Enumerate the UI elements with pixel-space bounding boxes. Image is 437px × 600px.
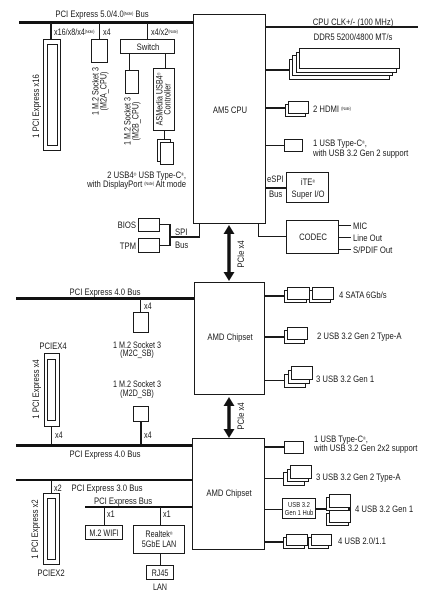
- DDR5 DIMM rect 3: [292, 55, 393, 76]
- label PCI Express 4.0 Bus (upper): [70, 287, 141, 297]
- bus PCI Express 4.0 (upper): [16, 297, 194, 300]
- label x4 (M2A): [103, 28, 111, 36]
- wire Realtek to RJ45: [160, 554, 161, 566]
- label Line Out: [353, 233, 382, 243]
- USB Type-C port rect: [284, 139, 303, 152]
- label 1 PCI Express x4: [31, 359, 41, 418]
- USB32Gen2TypeA rect1: [290, 465, 312, 479]
- USB32Gen2 front rect: [287, 327, 308, 341]
- USB32Gen1 rect1: [291, 366, 313, 380]
- label M.2 WIFI: [89, 529, 118, 537]
- wire S/PDIF Out: [339, 249, 351, 250]
- label PCIEX2: [37, 568, 64, 578]
- wire M2D to bus: [140, 422, 141, 445]
- DDR5 DIMM rect 1: [299, 48, 400, 69]
- label PCI Express Bus: [94, 496, 152, 506]
- label AMD Chipset (1): [207, 332, 252, 342]
- wire switch to ASMedia: [165, 54, 166, 68]
- USB32Gen1 rect2: [288, 370, 310, 384]
- wire bus to M2C: [140, 299, 141, 312]
- USB20 group2 back rect: [308, 537, 330, 549]
- USB4 port back rect: [157, 139, 171, 162]
- slot PCIEX16 outer: [43, 39, 62, 151]
- label SPI Bus: [175, 240, 188, 250]
- 4USB32Gen1 bottom front rect: [329, 510, 352, 523]
- label x1 (LAN): [163, 510, 171, 518]
- label PCI Express 5.0/4.0 Bus: [55, 9, 148, 19]
- wire switch to M2B: [129, 54, 130, 70]
- wire ASMedia to USB4 ports: [164, 131, 165, 140]
- label 1 M.2 Socket 3 (M2C_SB): [113, 341, 161, 358]
- USB20 group1 front rect: [286, 534, 308, 546]
- wire chipset2 to USB Type-C 2x2: [265, 446, 285, 447]
- label 2 USB4 USB Type-C with DisplayPort Alt mode: [87, 170, 186, 190]
- wire hub to 4xUSB ports: [316, 508, 351, 509]
- 4USB32Gen1 top front rect: [329, 494, 352, 509]
- bus PCI Express 5.0/4.0 (top): [19, 21, 193, 24]
- wire bus4 to Realtek: [160, 507, 161, 525]
- label 1 USB Type-C with USB 3.2 Gen 2 support: [313, 138, 408, 158]
- label eSPI: [267, 174, 284, 184]
- wire CPU to CODEC vertical: [258, 224, 259, 237]
- label x4 (PCIEX4): [55, 431, 63, 439]
- label 3 USB 3.2 Gen 2 Type-A: [316, 472, 400, 482]
- arrow PCIe x4 (CPU-chipset1): [219, 225, 239, 281]
- ASMedia USB4 controller box: [153, 68, 176, 131]
- label PCIe x4 (upper arrow): [236, 240, 246, 267]
- label 2 USB 3.2 Gen 2 Type-A: [317, 331, 401, 341]
- slot PCIEX2 outer: [43, 493, 60, 565]
- wire bus4 to M2 WIFI: [104, 507, 105, 525]
- SATA group1 back rect: [284, 290, 307, 303]
- USB32Gen1 rect3: [284, 374, 306, 388]
- wire BIOS to junction: [160, 224, 171, 225]
- label 1 PCI Express x16: [31, 74, 41, 138]
- M.2 WIFI box: [85, 525, 123, 540]
- M.2 socket M2B_CPU box: [125, 70, 139, 94]
- slot PCIEX2 inner: [47, 498, 56, 561]
- wire bus to switch: [147, 23, 148, 39]
- label AMD Chipset (2): [206, 488, 251, 498]
- label CPU CLK+/- (100 MHz): [313, 17, 394, 27]
- label x1 (WIFI): [107, 510, 115, 518]
- label x4 (M2D): [144, 431, 152, 439]
- 4USB32Gen1 top back rect: [326, 497, 349, 512]
- label CODEC: [299, 232, 327, 242]
- slot PCIEX4 outer: [44, 353, 60, 427]
- 4USB32Gen1 bottom back rect: [326, 513, 349, 526]
- wire CPU to DDR5: [266, 69, 289, 70]
- label USB 3.2 Gen 1 Hub: [285, 501, 314, 518]
- wire junction vertical: [169, 224, 170, 246]
- label AM5 CPU: [212, 105, 246, 115]
- slot PCIEX16 inner: [47, 44, 58, 146]
- wire TPM to junction: [160, 245, 171, 246]
- label 1 M.2 Socket 3 (M2B_CPU): [123, 96, 140, 144]
- label x16/x8/x4: [54, 28, 94, 36]
- RJ45 box: [146, 565, 175, 580]
- label 3 USB 3.2 Gen 1: [316, 374, 374, 384]
- switch box: [120, 39, 175, 54]
- SATA group1 front rect: [287, 287, 310, 300]
- DDR5 DIMM rect 4: [289, 59, 390, 80]
- label iTE Super I/O: [291, 176, 324, 200]
- wire chipset2 to USB 2.0: [265, 541, 284, 542]
- slot PCIEX4 inner: [47, 359, 56, 422]
- wire chipset2 to 3 USB 3.2 Gen 2 Type-A: [265, 478, 284, 479]
- wire CPU to HDMI: [266, 107, 285, 108]
- wire bus to M2A: [99, 23, 100, 39]
- label Bus: [269, 189, 282, 199]
- chipset1 AMD box: [194, 282, 266, 396]
- wire chipset2 to hub: [265, 509, 283, 510]
- label PCIEX4: [39, 341, 66, 351]
- label DDR5 5200/4800 MT/s: [314, 32, 393, 42]
- wire bus to PCIEX16: [50, 23, 51, 39]
- label RJ45: [151, 569, 168, 577]
- label 1 M.2 Socket 3 (M2D_SB): [113, 380, 161, 397]
- USB32Gen2TypeA rect3: [283, 472, 305, 486]
- label SPI: [175, 227, 187, 237]
- label x4/x2: [151, 28, 178, 36]
- SATA group2 front rect: [312, 287, 335, 300]
- wire CPU to USB Type-C: [266, 145, 284, 146]
- SATA group2 back rect: [309, 290, 332, 303]
- label TPM: [119, 241, 135, 251]
- M.2 socket M2D_SB box: [133, 406, 149, 422]
- label PCIe x4 (lower arrow): [236, 402, 246, 429]
- wire chipset1 to USB32Gen2: [265, 336, 284, 337]
- label 4 SATA 6Gb/s: [339, 290, 387, 300]
- label Realtek 5GbE LAN: [142, 529, 176, 550]
- HDMI back rect: [285, 104, 306, 117]
- label PCI Express 4.0 Bus (lower): [70, 449, 141, 459]
- wire Line Out: [339, 237, 351, 238]
- label x4 (M2C): [144, 302, 152, 310]
- M.2 socket M2A_CPU box: [91, 39, 108, 63]
- HDMI front rect: [288, 101, 309, 114]
- DDR5 DIMM rect 2: [296, 52, 397, 73]
- label x2: [54, 484, 62, 492]
- label PCI Express 3.0 Bus: [71, 483, 142, 493]
- label MIC: [353, 221, 367, 231]
- CPU AM5 box: [193, 14, 266, 224]
- label S/PDIF Out: [353, 245, 392, 255]
- USB20 group2 front rect: [311, 534, 333, 546]
- wire eSPI bus: [266, 187, 286, 188]
- label 4 USB 2.0/1.1: [338, 536, 386, 546]
- label Switch: [136, 42, 159, 52]
- wire chipset1 to SATA: [265, 295, 284, 296]
- wire MIC: [339, 225, 351, 226]
- USB32Gen2 back rect: [284, 330, 305, 344]
- arrow PCIe x4 (chipset1-chipset2): [219, 397, 239, 438]
- TPM box: [138, 238, 160, 253]
- wire PCIEX4 to bus: [51, 427, 52, 446]
- wire bus3 to PCIEX2: [51, 481, 52, 493]
- USB4 port front rect: [160, 142, 174, 165]
- wire CPU CLK: [266, 26, 418, 27]
- label 4 USB 3.2 Gen 1: [355, 504, 413, 514]
- iTE Super I/O box: [286, 172, 329, 203]
- Realtek 5GbE LAN box: [133, 525, 186, 554]
- label LAN: [153, 583, 167, 591]
- chipset2 AMD box: [192, 438, 265, 550]
- label 1 M.2 Socket 3 (M2A_CPU): [91, 67, 108, 115]
- bus PCI Express 3.0: [16, 479, 192, 482]
- label BIOS: [117, 220, 135, 230]
- USB 3.2 Gen 1 Hub box: [282, 498, 316, 519]
- M.2 socket M2C_SB box: [133, 312, 149, 333]
- BIOS box: [138, 218, 160, 232]
- wire chipset1 to USB32Gen1: [265, 380, 284, 381]
- CODEC box: [286, 220, 339, 254]
- wire SPI to CPU vertical: [199, 224, 200, 237]
- wire CPU to CODEC horizontal: [258, 236, 287, 237]
- USB20 group1 back rect: [283, 537, 305, 549]
- label 1 USB Type-C with USB 3.2 Gen 2x2 support: [314, 434, 417, 454]
- label 1 PCI Express x2: [30, 499, 40, 558]
- label ASMedia USB4 Controller: [156, 73, 173, 126]
- bus PCI Express 4.0 (lower): [16, 444, 192, 447]
- bus PCI Express (plain): [85, 506, 192, 509]
- USB32Gen2TypeA rect2: [287, 469, 309, 483]
- USB Type-C 2x2 rect: [284, 441, 304, 454]
- label 2 HDMI: [313, 104, 351, 114]
- wire SPI horizontal: [169, 236, 200, 237]
